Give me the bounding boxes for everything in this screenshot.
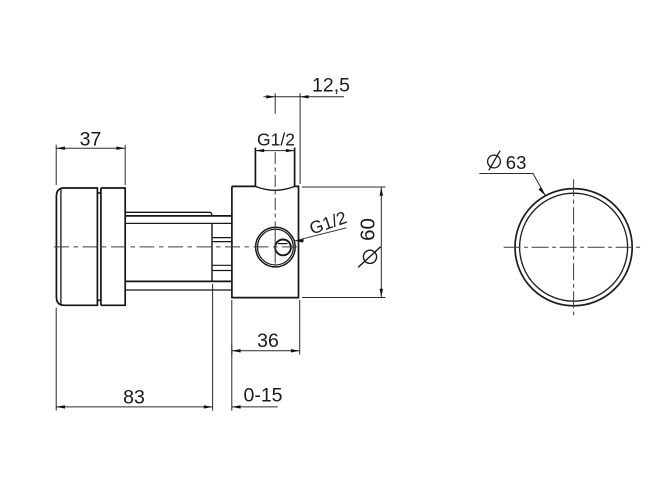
dim Ø60 arrows — [380, 187, 383, 196]
pipe vertical center line through hole — [274, 222, 276, 264]
top pipe saddle arc — [255, 186, 294, 190]
center lines — [54, 152, 299, 264]
svg-text:G1/2: G1/2 — [257, 130, 295, 150]
handle knob Ø63 outline — [56, 188, 97, 305]
dim G1/2 top line — [255, 150, 294, 152]
G1/2 leader arrow — [295, 239, 304, 242]
flange left edge — [100, 188, 102, 305]
arrowheads (filled) — [56, 95, 545, 409]
dimension texts — [80, 75, 527, 409]
dim 36 arrows — [232, 349, 241, 352]
dim 37 arrows — [56, 147, 65, 150]
dim 12,5 line with right tail — [264, 96, 345, 98]
dim 12,5 extension lines — [275, 93, 300, 184]
diameter symbol for Ø60 — [358, 247, 381, 268]
pipe vertical center line upper — [274, 152, 276, 219]
dim 12,5 arrows — [266, 95, 275, 98]
svg-text:36: 36 — [257, 330, 279, 352]
right view vertical center line — [573, 179, 575, 315]
svg-text:0-15: 0-15 — [243, 385, 282, 407]
dim 36 line — [232, 350, 300, 352]
sleeve inner top line — [125, 222, 232, 224]
dim 0-15 tail line — [232, 406, 278, 408]
sleeve end edge — [211, 223, 213, 281]
sleeve thin outer line top with step — [125, 212, 212, 216]
dim Ø60 extension lines — [302, 187, 386, 298]
dim 37 line — [56, 147, 125, 149]
rosette outer circle Ø63 — [515, 189, 632, 306]
Ø63 leader arrow — [538, 188, 545, 196]
svg-text:37: 37 — [80, 129, 102, 151]
spindle line upper 2 — [212, 241, 232, 243]
dim 36 extension lines — [232, 300, 300, 355]
dim 83 arrows — [56, 405, 65, 408]
main axis center line — [54, 246, 299, 248]
knob groove bottom edge — [97, 299, 101, 301]
small bore circle — [275, 240, 291, 256]
G1/2 front leader line — [295, 228, 347, 241]
sleeve bottom outer line — [125, 289, 232, 291]
G1/2 hole outer circle — [256, 227, 296, 267]
dim 83 extension lines — [56, 284, 212, 411]
top pipe right wall — [294, 148, 296, 187]
top pipe left wall — [254, 148, 256, 187]
svg-text:83: 83 — [123, 387, 145, 409]
knob groove top edge — [97, 192, 101, 194]
dim 83 line — [56, 406, 212, 408]
spindle line lower 2 — [212, 270, 232, 272]
right view horizontal center line — [504, 246, 644, 248]
diameter symbol for Ø63 — [488, 151, 501, 171]
dim G1/2 arrows — [255, 149, 264, 152]
G1/2 hole inner circle — [258, 229, 294, 265]
rosette inner circle — [520, 193, 628, 301]
svg-text:12,5: 12,5 — [312, 75, 350, 97]
small bore chord line — [278, 243, 288, 245]
handle knob face edge arc — [60, 189, 62, 304]
dim 37 extension lines — [56, 145, 125, 185]
spindle line lower 1 — [212, 264, 232, 266]
Ø63 leader shelf and diagonal — [479, 174, 545, 196]
dim 0-15 extension line right — [231, 300, 233, 411]
dim Ø60 line — [380, 187, 382, 298]
sleeve bottom edge — [125, 280, 232, 282]
spindle line upper 1 — [212, 237, 232, 239]
dim 0-15 arrows — [232, 405, 241, 408]
svg-text:60: 60 — [357, 218, 380, 241]
valve body outline — [232, 186, 299, 297]
flange outline — [101, 188, 125, 305]
svg-text:63: 63 — [506, 152, 527, 173]
sleeve top edge — [125, 215, 232, 217]
dimension graphics — [56, 93, 545, 410]
